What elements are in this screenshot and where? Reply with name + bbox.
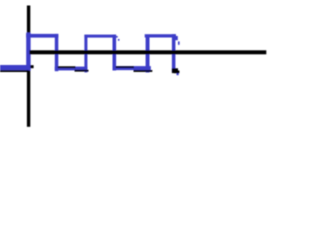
wire (black remnant under first low segment) bbox=[0, 70, 29, 72]
y-axis bbox=[27, 6, 30, 127]
x-axis bbox=[29, 50, 266, 54]
wire (notch at top of falling edge 5) bbox=[175, 36, 178, 40]
node A (black corner nub at first rising edge) bbox=[30, 65, 33, 68]
wire (blue falling edge 3) bbox=[113, 35, 117, 71]
wire (black remnant over second low segment, left part) bbox=[58, 66, 76, 68]
wire (blue high segment 3) bbox=[145, 34, 176, 37]
wire (blue falling edge 5) bbox=[172, 34, 176, 72]
node E (blue dot right of falling edge 3) bbox=[118, 39, 120, 41]
wire (black remnant under third low segment, right part) bbox=[134, 70, 153, 72]
wire (blue high segment 2) bbox=[84, 35, 116, 38]
wire (notch at right end of high segment 2) bbox=[116, 36, 118, 38]
wire (blue low segment 2) bbox=[55, 67, 88, 71]
wire (blue high segment 1) bbox=[26, 34, 58, 38]
node B (black end blob at final falling edge) bbox=[172, 68, 178, 73]
wire (black remnant under second low segment, right part) bbox=[75, 70, 89, 72]
node C (blue tip below end blob) bbox=[177, 73, 179, 75]
wire (blue rising edge 4) bbox=[146, 35, 150, 73]
wire (black remnant over third low segment, left part) bbox=[116, 66, 134, 68]
node D (blue dash right of falling edge 5) bbox=[178, 41, 180, 44]
wire (blue low segment 3) bbox=[113, 66, 151, 70]
wire (blue rising edge 1) bbox=[26, 33, 30, 71]
wire (blue rising edge 2) bbox=[84, 35, 87, 73]
wire (blue low segment 1) bbox=[0, 65, 31, 70]
wire (blue falling edge 1) bbox=[55, 34, 59, 71]
